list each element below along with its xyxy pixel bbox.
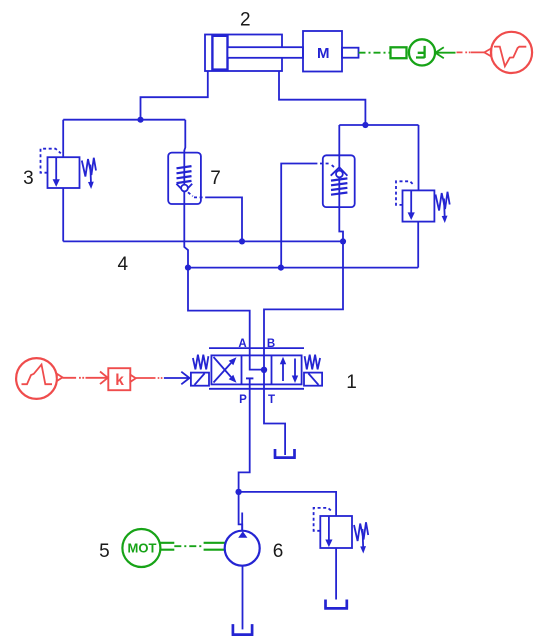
junction dot left rail bbox=[137, 117, 143, 123]
junction dot right rail bbox=[362, 122, 368, 128]
svg-text:5: 5 bbox=[99, 541, 110, 562]
svg-text:T: T bbox=[268, 394, 275, 406]
signal link gain to valve bbox=[136, 377, 163, 379]
wire: check valve 7 down to lower rail bbox=[184, 204, 188, 268]
gain k bbox=[108, 368, 136, 390]
svg-text:3: 3 bbox=[23, 168, 34, 189]
signal link source to gain k bbox=[63, 372, 108, 385]
cylinder 2 bbox=[205, 35, 303, 72]
tank at pump bbox=[232, 624, 254, 635]
wire: relief valve 3 to node rail bbox=[62, 188, 64, 241]
svg-text:4: 4 bbox=[118, 254, 129, 275]
signal link source to force sensor bbox=[457, 51, 485, 53]
mass M bbox=[303, 31, 359, 72]
svg-text:6: 6 bbox=[273, 541, 284, 562]
right relief valve bbox=[396, 181, 450, 223]
relief valve at pump bbox=[314, 508, 369, 554]
wire: pump node down to pump bbox=[239, 492, 243, 530]
wire: lower rail up to right relief valve bbox=[417, 222, 419, 268]
check valve 7 bbox=[168, 153, 201, 204]
shaft link M to force sensor bbox=[359, 52, 391, 54]
signal source force (red) bbox=[484, 32, 532, 73]
svg-text:k: k bbox=[115, 372, 124, 389]
right check valve bbox=[323, 155, 355, 207]
wire: bottom relief to its tank bbox=[335, 548, 337, 600]
svg-text:2: 2 bbox=[240, 10, 251, 31]
junction dot valve center bbox=[261, 367, 267, 373]
wire: node 4 lower rail bbox=[188, 267, 418, 269]
svg-text:7: 7 bbox=[210, 168, 221, 189]
valve 1 bbox=[191, 348, 322, 389]
svg-text:MOT: MOT bbox=[128, 540, 157, 555]
relief valve 3 bbox=[41, 149, 97, 189]
junction dot B branch bbox=[340, 238, 346, 244]
pump 6 bbox=[225, 531, 260, 566]
wire: left top rail bbox=[63, 119, 185, 121]
wire: right check valve to B junction bbox=[339, 207, 343, 241]
junction dot lower rail left bbox=[185, 265, 191, 271]
svg-text:M: M bbox=[317, 45, 330, 62]
wire: left rail to relief valve 3 bbox=[62, 120, 64, 158]
wire: pump node to bottom relief valve bbox=[239, 492, 337, 516]
wire: node 4 upper rail bbox=[63, 240, 343, 242]
svg-text:1: 1 bbox=[346, 372, 357, 393]
port labels A B P T bbox=[238, 338, 275, 406]
junction dot rail upper bbox=[239, 238, 245, 244]
pump inlet stub bbox=[241, 513, 243, 532]
actuation arrow into valve bbox=[164, 372, 190, 385]
wire: valve port P down to pump node bbox=[239, 378, 250, 492]
wire: cylinder left port down to left rail bbox=[141, 72, 208, 120]
wire: left rail to check valve 7 bbox=[184, 120, 185, 153]
svg-text:B: B bbox=[267, 338, 275, 350]
junction dot pump node bbox=[235, 489, 241, 495]
pilot line right check valve bbox=[281, 164, 334, 268]
wire: right rail to check valve bbox=[338, 125, 340, 155]
wire: right rail to right relief valve bbox=[418, 125, 420, 190]
signal source valve command (red) bbox=[16, 358, 62, 399]
wire: B junction to valve and through to tank bbox=[264, 241, 343, 455]
pilot line check valve 7 bbox=[188, 192, 242, 241]
wire: right top rail bbox=[339, 124, 418, 126]
tank at valve T bbox=[274, 449, 296, 458]
wire: cylinder right port down to right rail bbox=[279, 72, 365, 126]
wire: lower rail to valve port A bbox=[188, 268, 264, 370]
svg-text:A: A bbox=[238, 338, 246, 350]
motor MOT 5 bbox=[122, 529, 160, 567]
shaft link motor to pump bbox=[160, 543, 225, 550]
junction dot lower rail right bbox=[278, 265, 284, 271]
tank at bottom relief bbox=[324, 600, 348, 609]
force sensor F bbox=[391, 39, 456, 65]
wire: pump to bottom tank bbox=[242, 566, 244, 630]
svg-text:P: P bbox=[239, 394, 247, 406]
